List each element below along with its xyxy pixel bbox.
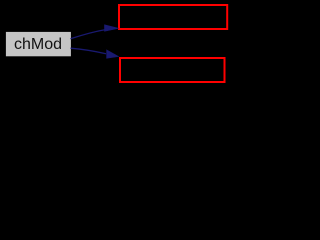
arrowhead [105,25,119,32]
node bottom-right (truncated node, red border, dark fill) [120,58,225,82]
edge chMod to bottom-right node [71,48,119,58]
wire [71,48,107,54]
node top-right (truncated node, red border, dark fill) [119,5,227,29]
svg-text:chMod: chMod [14,36,62,53]
wire [71,30,106,39]
arrowhead [107,50,119,58]
node chMod (current node, grey fill) [5,31,71,56]
edge chMod to top-right node [71,25,119,39]
